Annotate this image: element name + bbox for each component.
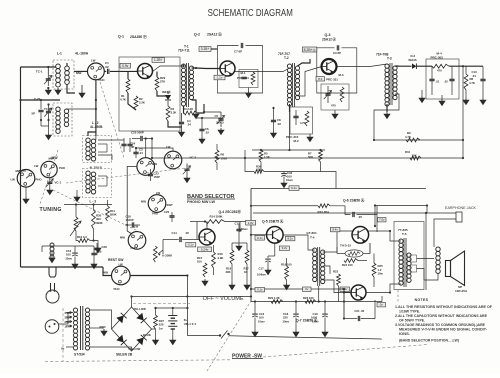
resistor R5 — [259, 150, 263, 162]
svg-text:TC-1: TC-1 — [36, 69, 43, 73]
svg-text:5P: 5P — [32, 112, 36, 116]
wire Q5 emitter down — [274, 243, 276, 256]
wire T-2 secondary top — [298, 59, 311, 66]
ground under C19 — [322, 330, 328, 337]
wire R1 bottom — [128, 93, 136, 110]
transistor Q2 — [220, 61, 235, 76]
svg-text:T-5: T-5 — [402, 232, 407, 236]
resistor R16 — [212, 252, 216, 268]
ground under T-3 — [384, 112, 390, 119]
svg-text:MW: MW — [49, 157, 54, 161]
resistor R24 — [344, 259, 358, 263]
voltage box 0.1v bottom — [255, 288, 265, 292]
svg-text:.01: .01 — [472, 74, 476, 78]
resistor R7 — [319, 150, 323, 162]
svg-text:4L 350 B: 4L 350 B — [90, 166, 103, 170]
trimmer capacitor TC-1 — [47, 67, 49, 73]
svg-text:10wv: 10wv — [286, 178, 293, 182]
wire SW1a to C1 — [104, 70, 106, 72]
tuning dial dashed lines — [100, 82, 124, 158]
svg-text:LW: LW — [156, 191, 161, 195]
voltage box 0.1v Q5 — [255, 236, 265, 241]
wire C21 left — [343, 302, 345, 319]
IF unit M-3 box — [321, 84, 349, 110]
wire bridge right — [152, 328, 156, 330]
svg-text:A-350K: A-350K — [162, 254, 173, 258]
resistor R19 — [285, 266, 289, 280]
svg-text:R20 1.2K: R20 1.2K — [268, 296, 280, 300]
resistor R22 — [337, 274, 341, 286]
capacitor C20 — [353, 212, 354, 217]
wire REST SW right — [130, 275, 187, 277]
svg-text:9.2v: 9.2v — [291, 186, 297, 190]
ground under C17 — [265, 268, 271, 275]
battery 6v UM-1 X4 — [168, 316, 177, 330]
wire T-3 primary bottom — [386, 104, 388, 112]
wire coil tap — [98, 155, 112, 160]
volume control A-350K — [153, 246, 157, 262]
wire pot to R10 — [76, 231, 78, 241]
svg-text:4L-350B: 4L-350B — [90, 125, 103, 129]
svg-text:0.1v: 0.1v — [257, 236, 263, 240]
svg-text:T-2: T-2 — [284, 56, 289, 60]
svg-text:1.8v: 1.8v — [248, 221, 254, 225]
earphone jack — [456, 212, 462, 222]
wire R1 top — [127, 72, 129, 80]
svg-text:MEASURED V-T-V-M UNDER NO SIGN: MEASURED V-T-V-M UNDER NO SIGNAL CONDIT- — [399, 328, 487, 332]
svg-text:4.7K: 4.7K — [405, 135, 411, 139]
band switch SW1a — [88, 63, 105, 80]
svg-text:C21 .02: C21 .02 — [354, 309, 364, 313]
ground under T-1 — [193, 112, 199, 119]
capacitor C9 — [337, 45, 338, 50]
wire osc bus verticals — [40, 120, 42, 126]
wire audio left edge — [250, 189, 252, 302]
underline POWER SW — [232, 358, 263, 360]
ground under SW2 — [23, 197, 29, 204]
svg-text:1.5K: 1.5K — [264, 155, 270, 159]
ground near L-3 — [74, 195, 80, 202]
wire AVC takeoff down — [459, 66, 463, 158]
svg-text:100: 100 — [66, 253, 71, 257]
wire audio box right edge — [425, 213, 427, 290]
capacitor C25 500P — [141, 136, 142, 141]
junction AVC 1 — [462, 139, 464, 141]
svg-text:7.6v: 7.6v — [379, 218, 385, 222]
svg-text:LW: LW — [134, 224, 139, 228]
wire L-1 bottom lead — [67, 84, 75, 93]
svg-text:3.9K: 3.9K — [218, 256, 224, 260]
wire SW5 top link — [136, 148, 173, 151]
svg-text:100: 100 — [259, 316, 264, 320]
ground under M-3 — [332, 112, 338, 119]
svg-text:EARPHONE JACK: EARPHONE JACK — [445, 206, 477, 210]
wire Q2 collector to T-2 — [235, 68, 290, 72]
chassis ground 4 — [480, 98, 486, 105]
wire C1 to Q1 — [110, 70, 138, 72]
wire jack feed down — [374, 206, 376, 227]
svg-text:NOTES: NOTES — [415, 298, 429, 302]
capacitor C6 — [199, 129, 204, 130]
wire secondary bottom — [90, 347, 132, 351]
ground under choke — [49, 256, 55, 263]
junction dots — [19, 99, 21, 101]
svg-text:35/4.5: 35/4.5 — [216, 121, 224, 125]
svg-text:TH D-15: TH D-15 — [340, 244, 351, 248]
svg-text:4.7K: 4.7K — [469, 81, 475, 85]
wire T-1 secondary bottom — [192, 100, 197, 112]
capacitor C18b — [293, 313, 299, 315]
wire Q6 emitter down — [369, 243, 371, 254]
svg-text:.02: .02 — [105, 65, 110, 69]
wire R3 bottom — [168, 121, 182, 127]
svg-text:LW: LW — [11, 178, 16, 182]
svg-text:8.4v: 8.4v — [332, 228, 338, 232]
svg-text:C25 500P: C25 500P — [131, 131, 144, 135]
resistor R23b — [305, 300, 316, 304]
wire thermistor leads — [337, 253, 345, 255]
pilot lamp / plug — [49, 267, 56, 277]
wire C14 left down — [162, 240, 164, 255]
chassis ground 2 — [439, 99, 445, 106]
underline BAND SELECTOR — [187, 198, 235, 200]
wire T-5 to speaker coil — [417, 258, 435, 260]
svg-text:-10wv: -10wv — [65, 256, 73, 260]
ground under osc coil — [46, 133, 52, 140]
svg-text:.05: .05 — [358, 215, 362, 219]
capacitor C19 — [322, 313, 328, 315]
transistor Q4 — [199, 229, 215, 245]
resistor R15 — [203, 263, 207, 277]
wire Q4 base bias — [196, 222, 198, 240]
svg-text:9.2v: 9.2v — [282, 246, 288, 250]
chassis ground 3 — [463, 98, 469, 105]
wire pot cluster bus — [64, 204, 112, 206]
voltage box 1.2B+ — [152, 58, 165, 63]
svg-text:IONS.: IONS. — [399, 332, 410, 336]
wire L-1 top lead — [66, 63, 68, 66]
wire to jack — [427, 212, 456, 214]
wire battery rail y308 — [156, 307, 188, 309]
wire y118 — [196, 117, 221, 119]
svg-text:LW: LW — [166, 145, 171, 149]
ground under C33 — [281, 181, 287, 188]
bridge diode 1 — [116, 316, 123, 324]
power switch contacts — [187, 335, 219, 337]
svg-text:4.7K: 4.7K — [300, 121, 306, 125]
svg-text:2SA12 Ⓐ: 2SA12 Ⓐ — [322, 37, 337, 42]
power transformer ST-534 — [73, 308, 77, 312]
voltage box 0.9v — [120, 63, 131, 68]
wire choke bus — [42, 245, 75, 247]
capacitor C3 — [133, 152, 138, 153]
capacitor C10 — [480, 79, 485, 80]
IF coil block lower — [83, 169, 112, 198]
wire Q6 Q7 collector bus — [376, 226, 378, 232]
svg-text:1000: 1000 — [311, 316, 318, 320]
svg-text:LW: LW — [34, 164, 39, 168]
svg-text:Q-1: Q-1 — [118, 35, 124, 39]
capacitor in M-2 — [293, 116, 298, 117]
svg-text:SCHEMATIC DIAGRAM: SCHEMATIC DIAGRAM — [208, 8, 293, 19]
voltage box 8.2v M3 — [316, 77, 325, 81]
switch REST SW — [112, 266, 131, 285]
ground under C16a — [72, 262, 78, 269]
capacitor C16 100/10wv — [72, 252, 78, 254]
speaker voice coil — [436, 247, 440, 251]
trimmer C5 — [217, 112, 225, 127]
ground small — [91, 262, 97, 269]
diode D-1 — [167, 91, 169, 94]
resistor R1 — [126, 79, 130, 93]
capacitor C14 — [180, 237, 181, 242]
svg-text:PHO: PHO — [131, 246, 138, 250]
wire left bus — [20, 67, 22, 267]
wire T-1 secondary to Q2 — [192, 67, 221, 70]
svg-text:50wv: 50wv — [241, 227, 248, 231]
band switch SW4 — [137, 158, 155, 176]
transistor Q7 — [351, 285, 366, 300]
resistor in M-1 — [251, 72, 255, 85]
svg-text:.05: .05 — [185, 231, 189, 235]
svg-text:0.1v: 0.1v — [257, 288, 263, 292]
svg-text:8.2B+◎: 8.2B+◎ — [304, 48, 316, 52]
svg-text:TUNING: TUNING — [40, 207, 62, 213]
svg-text:0.1v: 0.1v — [188, 243, 194, 247]
svg-text:MW: MW — [141, 200, 146, 204]
bridge diode 2 — [116, 335, 123, 343]
resistor R29 — [155, 77, 159, 91]
audio feedback rail y289 — [251, 288, 344, 290]
svg-text:MW: MW — [120, 236, 125, 240]
svg-text:100: 100 — [197, 260, 202, 264]
svg-text:8.2v: 8.2v — [287, 237, 293, 241]
wire to C5 — [204, 104, 221, 112]
wire power to audio bottom — [230, 336, 383, 339]
transformer T-1 — [181, 63, 193, 107]
wire bus to SW2 — [21, 170, 27, 172]
wire bus y246 — [75, 245, 94, 247]
wire AC to transformer — [59, 313, 73, 325]
resistor R18 — [230, 250, 234, 264]
svg-text:1500P: 1500P — [126, 218, 134, 222]
transformer T-3 — [385, 63, 397, 106]
resistor R4 — [184, 111, 197, 115]
ground under VC-2 — [184, 176, 190, 183]
ground RED — [101, 329, 107, 336]
resistor R14 — [206, 220, 225, 224]
svg-text:.04: .04 — [187, 123, 191, 127]
wire R29 top — [156, 72, 158, 78]
svg-text:R31: R31 — [405, 150, 411, 154]
wire Q7 base left — [344, 292, 351, 294]
ground under R17 — [244, 283, 250, 290]
ground under C8 — [271, 131, 277, 138]
svg-text:L - 3: L - 3 — [90, 200, 97, 204]
svg-text:27K: 27K — [160, 79, 165, 83]
wire AVC rail y158 — [152, 157, 463, 159]
svg-text:3.2B+: 3.2B+ — [201, 47, 210, 51]
band switch SW2 — [17, 170, 35, 188]
wire T-4 to Q6 base — [323, 231, 352, 252]
ground under C18b — [293, 330, 299, 337]
svg-text:RED: RED — [100, 325, 106, 329]
svg-text:OFF ~ VOLUME: OFF ~ VOLUME — [203, 296, 245, 302]
svg-text:10w: 10w — [378, 272, 384, 276]
svg-text:71F-711: 71F-711 — [178, 48, 190, 52]
svg-text:390K: 390K — [96, 221, 103, 225]
wire Q5 to T-4 — [283, 235, 315, 250]
voltage box 3.2B+ — [199, 47, 211, 52]
wire T-2 to Q3 base — [298, 67, 322, 97]
junction AVC 2 — [462, 157, 464, 159]
band switch SW5 — [164, 151, 182, 169]
T-5 terminal rects — [410, 255, 417, 262]
voltage box 1.8v — [246, 220, 256, 225]
svg-text:PRC-331: PRC-331 — [326, 78, 338, 82]
wire vertical x187 — [186, 276, 188, 336]
ground under C6 — [199, 137, 205, 144]
svg-text:YELLOW: YELLOW — [134, 307, 147, 311]
dash line volume — [133, 303, 190, 305]
IF coil block upper — [83, 136, 112, 163]
svg-text:C28: C28 — [102, 245, 108, 249]
speaker SP — [446, 251, 465, 286]
ground under C5 — [218, 128, 224, 135]
svg-text:YELLOW: YELLOW — [128, 347, 141, 351]
svg-text:150P: 150P — [154, 175, 161, 179]
resistor R11 — [106, 206, 110, 221]
svg-text:.02: .02 — [277, 122, 281, 126]
svg-text:IN34A: IN34A — [409, 58, 418, 62]
svg-text:3.3K: 3.3K — [171, 111, 177, 115]
wire 0v tap — [66, 346, 73, 348]
wire R4 right — [197, 104, 204, 113]
wire C14 to Q4 base — [197, 239, 199, 241]
wire speaker coil return — [424, 274, 438, 281]
ground under C16 — [252, 330, 258, 337]
svg-text:MW: MW — [152, 162, 157, 166]
capacitor C33 — [281, 173, 287, 175]
band switch SW6 — [148, 195, 166, 213]
voltage box 8.2B+ — [302, 47, 316, 52]
potentiometer (tone) — [74, 217, 78, 231]
ground under R15 — [202, 279, 208, 286]
wire T-1 primary bottom — [183, 106, 186, 113]
wire T-4 to Q7 base — [323, 280, 351, 293]
resistor R8 — [464, 74, 468, 90]
capacitor in M-1 — [241, 77, 246, 78]
resistor in M-3 — [340, 87, 344, 102]
svg-text:10wv: 10wv — [258, 319, 265, 323]
svg-text:L-1: L-1 — [57, 52, 62, 56]
svg-text:(BAND SELECTOR POSITION….LW): (BAND SELECTOR POSITION….LW) — [399, 339, 459, 343]
svg-text:T-4: T-4 — [310, 235, 315, 239]
wire filter output — [449, 65, 483, 67]
wire R30 bottom — [93, 229, 95, 241]
output unit box T-5 — [394, 222, 424, 290]
wire secondary top to bridge — [90, 310, 112, 329]
trimmer TC-2 — [44, 104, 52, 120]
svg-text:.02: .02 — [444, 80, 448, 84]
resistor R6 — [215, 150, 219, 163]
resistor 470 in M-4 — [432, 64, 449, 68]
stage box Q2 — [218, 46, 263, 94]
wire switch column vertical — [127, 167, 137, 235]
wire to SW4 — [145, 139, 147, 158]
svg-text:0.24v: 0.24v — [201, 247, 209, 251]
ground under battery — [170, 338, 176, 345]
svg-text:.02: .02 — [205, 131, 209, 135]
wire T-5 secondary bottom — [417, 269, 425, 281]
svg-text:SELEN 2B: SELEN 2B — [116, 353, 133, 357]
svg-text:Q-5 2SB75 Ⓐ: Q-5 2SB75 Ⓐ — [262, 219, 284, 224]
svg-text:4L-160A: 4L-160A — [75, 52, 89, 56]
capacitor C8 — [271, 120, 276, 121]
capacitor C28 — [94, 248, 99, 249]
audio rail y205.8 with R23 — [251, 205, 318, 207]
AC input socket — [45, 320, 59, 334]
wire rail y150 — [252, 149, 325, 151]
wire Q7 to T-5 — [366, 284, 401, 293]
svg-text:M-3: M-3 — [339, 73, 344, 77]
wire C20 to Q6 — [357, 215, 378, 227]
svg-text:M-2: M-2 — [294, 139, 299, 143]
voltage box 0v Q7 — [377, 303, 386, 307]
antenna coil L-1 — [53, 60, 74, 89]
capacitors right of coils — [121, 144, 126, 145]
wire Q1 collector to T-1 — [153, 64, 184, 72]
voltage box 0.24v — [198, 247, 212, 252]
svg-text:C25: C25 — [164, 210, 170, 214]
wire center tap RED — [90, 327, 104, 329]
svg-text:R23 100: R23 100 — [303, 296, 314, 300]
svg-text:BLUE: BLUE — [143, 333, 151, 337]
wire L-1 to SW1a — [74, 70, 88, 72]
transistor Q3 — [322, 59, 337, 74]
diode D-2 — [412, 64, 416, 69]
voltage box 0v bottom — [303, 287, 312, 291]
capacitor .02 in M-4 — [449, 79, 454, 80]
svg-text:4.7K: 4.7K — [120, 98, 126, 102]
voltage box 8.2v Q5 — [285, 236, 295, 240]
svg-text:10K: 10K — [412, 154, 417, 158]
wire to Q5 base — [251, 234, 267, 236]
voltage box 9.2v rail — [289, 186, 299, 191]
svg-text:PHO: PHO — [114, 287, 121, 291]
ground under SW1a wire — [79, 91, 85, 98]
resistor R10 — [78, 239, 90, 243]
svg-text:2SA12 Ⓐ: 2SA12 Ⓐ — [207, 32, 222, 37]
svg-text:820K: 820K — [110, 213, 117, 217]
rail y171 with R36 — [245, 150, 254, 172]
wire jack to speaker — [434, 219, 456, 247]
wire under R29 — [157, 91, 168, 96]
svg-text:PHO: PHO — [59, 166, 66, 170]
svg-text:.01: .01 — [436, 80, 440, 84]
svg-text:MW: MW — [103, 271, 108, 275]
bridge diode 4 — [136, 338, 143, 346]
resistor R31 — [410, 156, 421, 160]
capacitor C7 — [241, 43, 242, 48]
svg-text:TC-2: TC-2 — [44, 107, 51, 111]
ground under R19 — [284, 283, 290, 290]
dashed chassis bottom right — [263, 345, 428, 358]
IF unit M-2 box — [290, 107, 313, 134]
svg-text:Q-3: Q-3 — [325, 33, 331, 37]
power switch linkage dashed — [207, 301, 251, 371]
wire Q4 collector rail — [206, 222, 208, 227]
